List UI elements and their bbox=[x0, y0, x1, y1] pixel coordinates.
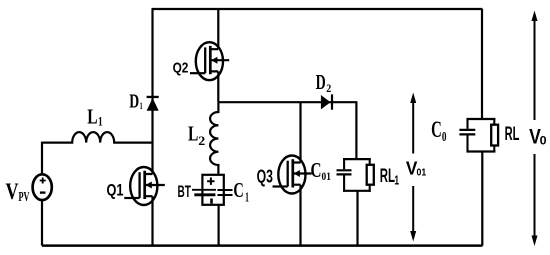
svg-text:Q2: Q2 bbox=[173, 59, 189, 76]
svg-text:RL: RL bbox=[380, 165, 395, 187]
svg-text:1: 1 bbox=[394, 173, 399, 188]
svg-text:0: 0 bbox=[442, 129, 447, 144]
svg-text:2: 2 bbox=[326, 81, 331, 95]
svg-text:D: D bbox=[129, 91, 139, 113]
svg-text:C: C bbox=[311, 158, 322, 182]
svg-text:01: 01 bbox=[417, 168, 427, 179]
svg-text:01: 01 bbox=[322, 171, 332, 183]
svg-text:Q1: Q1 bbox=[107, 181, 124, 199]
svg-text:C: C bbox=[233, 178, 243, 202]
svg-text:1: 1 bbox=[98, 114, 103, 128]
svg-text:D: D bbox=[316, 70, 326, 94]
svg-text:L: L bbox=[188, 122, 198, 146]
svg-text:2: 2 bbox=[198, 134, 205, 148]
svg-text:1: 1 bbox=[245, 190, 249, 205]
svg-text:0: 0 bbox=[540, 136, 547, 148]
svg-text:C: C bbox=[431, 117, 442, 142]
svg-text:1: 1 bbox=[140, 102, 143, 112]
svg-text:PV: PV bbox=[19, 189, 30, 204]
svg-text:Q3: Q3 bbox=[257, 167, 273, 187]
svg-text:BT: BT bbox=[178, 182, 192, 201]
svg-text:V: V bbox=[6, 179, 19, 204]
svg-text:L: L bbox=[87, 105, 97, 129]
svg-text:RL: RL bbox=[505, 124, 520, 145]
